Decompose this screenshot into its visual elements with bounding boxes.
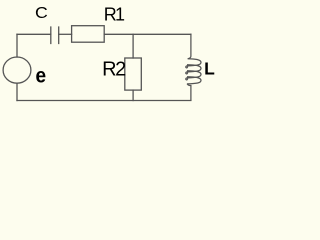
wire top rail left segment: [17, 33, 51, 35]
source e: [3, 57, 31, 83]
svg-text:L: L: [204, 58, 215, 78]
resistor R2: [125, 58, 142, 90]
wire left vertical top: [16, 34, 18, 57]
svg-text:C: C: [35, 5, 48, 22]
inductor L: [186, 34, 201, 100]
wire top rail right segment: [104, 33, 191, 35]
wire capacitor to R1: [59, 33, 72, 35]
svg-text:e: e: [36, 65, 47, 88]
capacitor C: [51, 27, 59, 44]
wire R2 branch top: [132, 34, 134, 58]
wire bottom rail: [17, 100, 191, 102]
resistor R1: [72, 26, 105, 43]
wire left vertical bottom: [16, 83, 18, 100]
svg-text:R1: R1: [104, 5, 125, 25]
svg-text:R2: R2: [102, 59, 126, 81]
wire R2 branch bottom: [132, 90, 134, 100]
